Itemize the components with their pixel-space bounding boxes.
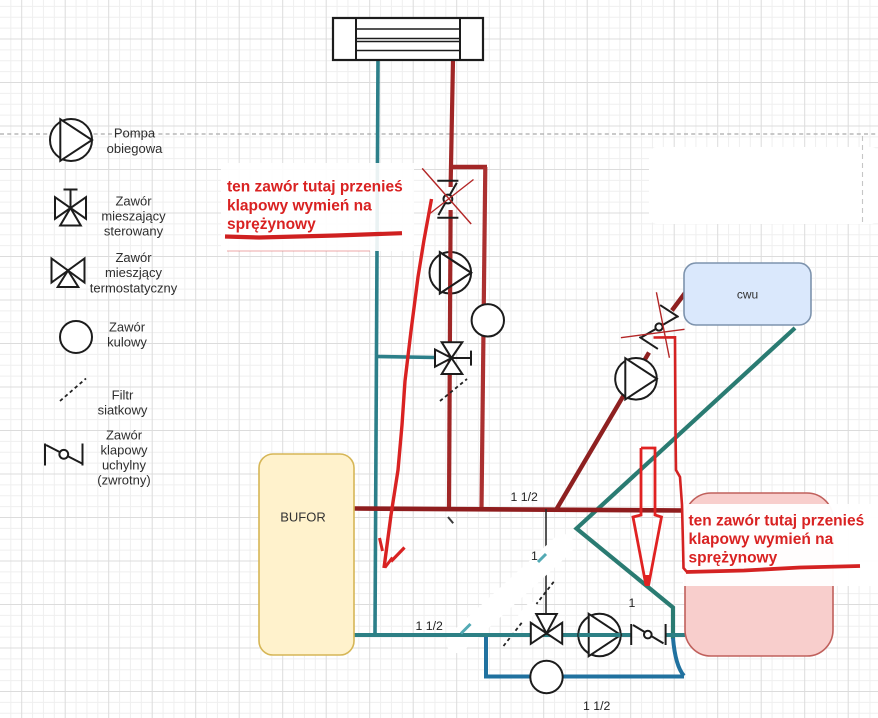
svg-text:klapowy wymień na: klapowy wymień na (227, 197, 372, 214)
svg-text:obiegowa: obiegowa (107, 141, 163, 156)
svg-text:sprężynowy: sprężynowy (227, 216, 316, 233)
svg-text:1: 1 (531, 549, 538, 563)
svg-text:sprężynowy: sprężynowy (689, 550, 778, 567)
svg-text:termostatyczny: termostatyczny (90, 281, 178, 296)
svg-text:1 1/2: 1 1/2 (583, 699, 611, 713)
svg-text:1: 1 (629, 596, 636, 610)
svg-text:Zawór: Zawór (106, 428, 143, 443)
svg-text:1 1/2: 1 1/2 (416, 619, 444, 633)
svg-text:siatkowy: siatkowy (98, 403, 148, 418)
svg-text:Zawór: Zawór (109, 320, 146, 335)
svg-text:mieszający: mieszający (101, 209, 166, 224)
svg-text:cwu: cwu (737, 288, 758, 302)
svg-text:1 1/2: 1 1/2 (511, 490, 539, 504)
svg-text:uchylny: uchylny (102, 458, 147, 473)
svg-text:Pompa: Pompa (114, 126, 156, 141)
svg-text:sterowany: sterowany (104, 224, 164, 239)
svg-text:klapowy: klapowy (101, 443, 148, 458)
svg-text:Zawór: Zawór (115, 250, 152, 265)
svg-text:ten zawór tutaj przenieś: ten zawór tutaj przenieś (689, 513, 865, 530)
svg-text:Zawór: Zawór (115, 194, 152, 209)
svg-text:BUFOR: BUFOR (280, 510, 326, 525)
svg-text:kulowy: kulowy (107, 335, 147, 350)
svg-text:Filtr: Filtr (112, 388, 134, 403)
svg-text:(zwrotny): (zwrotny) (97, 473, 150, 488)
svg-text:klapowy wymień na: klapowy wymień na (689, 531, 834, 548)
svg-text:mieszjący: mieszjący (105, 265, 163, 280)
svg-text:ten zawór tutaj przenieś: ten zawór tutaj przenieś (227, 179, 403, 196)
